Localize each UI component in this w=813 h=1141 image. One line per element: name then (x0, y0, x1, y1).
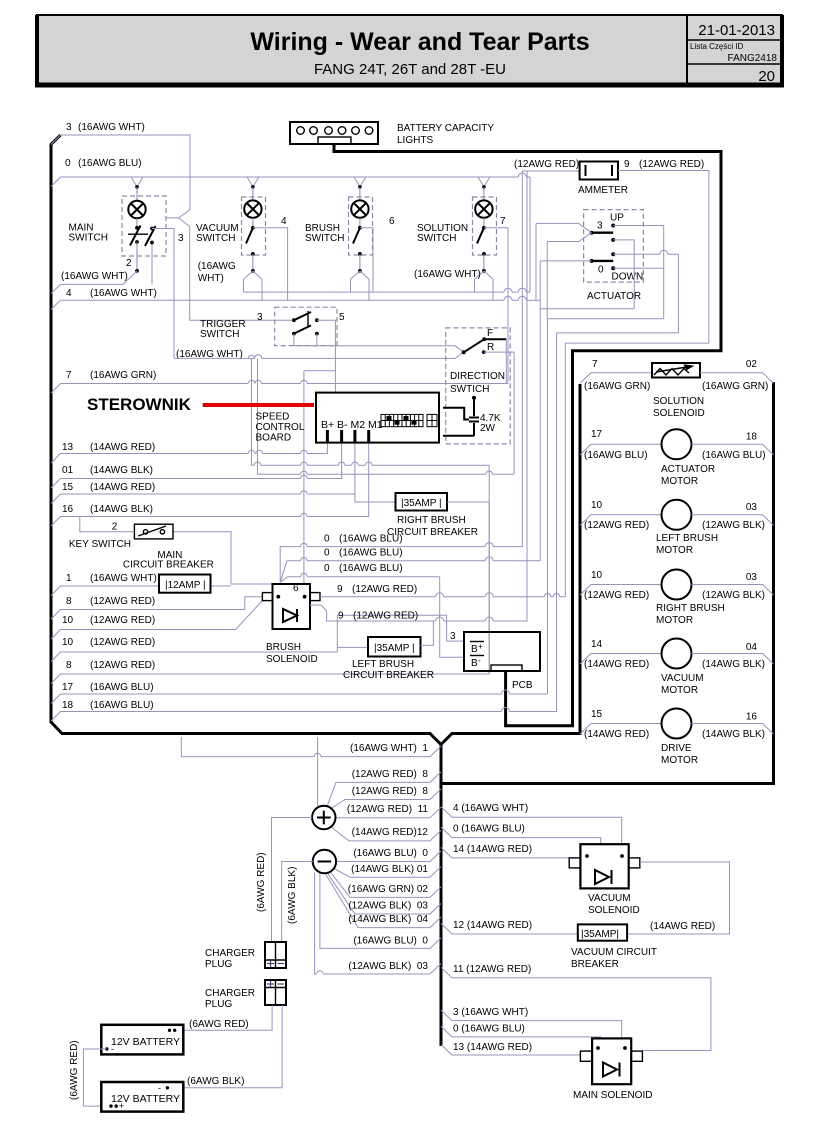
wire (14AWG BLK) 01 (333, 867, 441, 878)
svg-text:(14AWG BLK): (14AWG BLK) (90, 504, 153, 515)
svg-text:(16AWG GRN): (16AWG GRN) (702, 381, 768, 392)
svg-text:SOLUTION: SOLUTION (653, 396, 704, 407)
svg-text:CIRCUIT BREAKER: CIRCUIT BREAKER (343, 670, 434, 681)
actuator right side wires (613, 225, 664, 227)
svg-text:9: 9 (338, 611, 344, 622)
svg-text:16: 16 (746, 712, 758, 723)
actuator (530, 177, 678, 561)
svg-text:RIGHT BRUSH: RIGHT BRUSH (397, 515, 466, 526)
svg-text:PCB: PCB (512, 680, 533, 691)
wire 0 (16AWG BLU) (441, 827, 601, 844)
svg-text:01: 01 (62, 465, 74, 476)
svg-text:MOTOR: MOTOR (661, 476, 698, 487)
svg-text:VACUUM: VACUUM (661, 673, 704, 684)
right section: solution solenoid (580, 359, 774, 419)
svg-text:1: 1 (66, 573, 72, 584)
wire 8b row (51, 502, 489, 684)
wire 8 row (51, 597, 262, 619)
svg-text:9: 9 (624, 159, 630, 170)
svg-text:3 (16AWG WHT): 3 (16AWG WHT) (453, 1007, 528, 1018)
svg-text:Wiring - Wear and Tear Parts: Wiring - Wear and Tear Parts (250, 28, 589, 56)
svg-text:|35AMP |: |35AMP | (401, 498, 442, 509)
wire 4 (16AWG WHT) (441, 807, 622, 845)
wire feed A (548, 318, 664, 320)
svg-text:8: 8 (66, 660, 72, 671)
svg-text:(12AWG RED): (12AWG RED) (353, 611, 418, 622)
wire 3 row (51, 135, 294, 320)
svg-text:(14AWG RED): (14AWG RED) (90, 482, 155, 493)
wire battery2 minus to plug2 (172, 1005, 282, 1088)
svg-text:BATTERY CAPACITY: BATTERY CAPACITY (397, 123, 494, 134)
svg-text:(12AWG RED): (12AWG RED) (352, 584, 417, 595)
svg-text:B: B (471, 658, 478, 669)
wire battery1 plus to plug2 (174, 1005, 272, 1030)
trigger switch (174, 307, 514, 584)
drive motor (580, 709, 774, 767)
svg-text:MAIN SOLENOID: MAIN SOLENOID (573, 1090, 652, 1101)
svg-text:(16AWG BLU): (16AWG BLU) (78, 158, 142, 169)
svg-text:UP: UP (610, 213, 624, 224)
battery series loop (83, 1049, 111, 1106)
solution switch (414, 177, 508, 384)
wire 1 row with 12AMP breaker (51, 586, 159, 596)
svg-text:(12AWG BLK): (12AWG BLK) (702, 590, 765, 601)
svg-text:SWITCH: SWITCH (69, 233, 108, 244)
svg-text:10: 10 (591, 570, 603, 581)
battery plus node (272, 737, 336, 942)
svg-text:0: 0 (598, 265, 604, 276)
ammeter (514, 159, 709, 343)
svg-text:Lista Części ID: Lista Części ID (690, 42, 744, 51)
vacuum solenoid (569, 844, 729, 934)
left brush motor (580, 500, 774, 556)
svg-text:9: 9 (337, 584, 343, 595)
wire 13 row (51, 454, 248, 464)
svg-text:VACUUM: VACUUM (588, 893, 631, 904)
long horizontal wire y465 (252, 462, 490, 674)
svg-text:MOTOR: MOTOR (661, 755, 698, 766)
svg-text:(16AWG BLU): (16AWG BLU) (90, 682, 154, 693)
wire 10 row (51, 601, 262, 639)
svg-text:BRUSH: BRUSH (266, 642, 301, 653)
svg-text:MOTOR: MOTOR (656, 545, 693, 556)
wire 0 row (51, 177, 518, 187)
svg-text:PLUG: PLUG (205, 959, 232, 970)
svg-text:DOWN: DOWN (612, 272, 644, 283)
svg-text:(14AWG RED): (14AWG RED) (584, 729, 649, 740)
svg-text:0: 0 (324, 534, 330, 545)
svg-text:7: 7 (500, 216, 506, 227)
bottom-right thick branch (441, 382, 774, 784)
distribution wire y292 (244, 288, 531, 292)
left bus stub rows (51, 122, 557, 721)
svg-text:(6AWG RED): (6AWG RED) (256, 852, 267, 912)
svg-text:3: 3 (66, 122, 72, 133)
svg-text:(14AWG BLK) 04: (14AWG BLK) 04 (348, 914, 428, 925)
svg-text:10: 10 (62, 615, 74, 626)
vacuum motor (580, 639, 774, 697)
svg-text:(12AWG RED) 8: (12AWG RED) 8 (352, 769, 429, 780)
svg-text:13 (14AWG RED): 13 (14AWG RED) (453, 1042, 532, 1053)
12V battery 2 (101, 1082, 183, 1112)
wire (16AWG GRN) 02 (330, 872, 441, 898)
svg-text:CIRCUIT BREAKER: CIRCUIT BREAKER (123, 560, 214, 571)
svg-text:(14AWG RED): (14AWG RED) (584, 659, 649, 670)
svg-text:(12AWG RED): (12AWG RED) (639, 159, 704, 170)
svg-text:(14AWG BLK): (14AWG BLK) (702, 659, 765, 670)
svg-text:(14AWG BLK) 01: (14AWG BLK) 01 (351, 864, 428, 875)
svg-text:3: 3 (257, 312, 263, 323)
svg-text:15: 15 (591, 709, 603, 720)
wire (16AWG BLU) 0 (337, 851, 442, 862)
svg-text:03: 03 (746, 572, 758, 583)
direction switch (446, 328, 514, 474)
left brush circuit breaker 35AMP (337, 621, 434, 681)
header block (35, 15, 784, 86)
svg-text:(16AWG GRN): (16AWG GRN) (584, 381, 650, 392)
svg-text:|12AMP |: |12AMP | (165, 580, 206, 591)
wire 0 (16AWG BLU) (441, 1026, 601, 1038)
main circuit breaker 12AMP (123, 550, 214, 593)
svg-text:8: 8 (66, 596, 72, 607)
bottom-left stub rows into second bus (181, 737, 441, 974)
key switch (69, 517, 173, 551)
wire 13 (14AWG RED) (441, 1045, 580, 1056)
svg-text:2: 2 (126, 258, 132, 269)
svg-text:0: 0 (65, 158, 71, 169)
svg-text:3: 3 (178, 233, 184, 244)
svg-text:+: + (119, 1101, 124, 1111)
svg-text:(16AWG: (16AWG (198, 261, 236, 272)
svg-text:+: + (478, 642, 483, 651)
svg-text:ACTUATOR: ACTUATOR (661, 464, 715, 475)
svg-text:-: - (158, 1083, 161, 1093)
svg-text:0: 0 (324, 548, 330, 559)
svg-text:(16AWG BLU) 0: (16AWG BLU) 0 (353, 848, 428, 859)
svg-text:LEFT BRUSH: LEFT BRUSH (352, 659, 414, 670)
svg-text:12 (14AWG RED): 12 (14AWG RED) (453, 920, 532, 931)
three 0 (16AWG BLU) rows (280, 171, 540, 657)
svg-text:B: B (471, 644, 478, 655)
wire 12 (14AWG RED) (441, 924, 578, 935)
svg-text:(16AWG WHT): (16AWG WHT) (414, 269, 481, 280)
actuator merge chevron wires (536, 223, 592, 232)
svg-text:6: 6 (293, 583, 299, 594)
svg-text:(16AWG WHT): (16AWG WHT) (90, 573, 157, 584)
svg-text:(16AWG BLU): (16AWG BLU) (702, 450, 766, 461)
svg-text:CONTROL: CONTROL (256, 422, 305, 433)
svg-text:SWTICH: SWTICH (450, 384, 489, 395)
svg-text:DIRECTION: DIRECTION (450, 371, 505, 382)
svg-text:(12AWG RED) 11: (12AWG RED) 11 (347, 804, 429, 815)
svg-text:PLUG: PLUG (205, 999, 232, 1010)
svg-text:(16AWG BLU): (16AWG BLU) (90, 700, 154, 711)
svg-text:SWITCH: SWITCH (305, 233, 344, 244)
svg-text:SWITCH: SWITCH (200, 329, 239, 340)
brush switch (305, 177, 395, 300)
svg-text:3: 3 (597, 221, 603, 232)
svg-text:CHARGER: CHARGER (205, 988, 255, 999)
PCB (450, 631, 540, 691)
svg-text:(16AWG BLU): (16AWG BLU) (339, 548, 403, 559)
wire 18 row (51, 712, 502, 722)
svg-text:14: 14 (591, 639, 603, 650)
svg-text:(16AWG BLU) 0: (16AWG BLU) 0 (353, 936, 428, 947)
svg-text:(6AWG BLK): (6AWG BLK) (187, 1076, 244, 1087)
svg-text:(12AWG RED): (12AWG RED) (584, 590, 649, 601)
svg-text:02: 02 (746, 359, 758, 370)
svg-text:11 (12AWG RED): 11 (12AWG RED) (453, 964, 531, 975)
main solenoid (573, 1038, 652, 1101)
svg-text:6: 6 (389, 216, 395, 227)
svg-text:VACUUM CIRCUIT: VACUUM CIRCUIT (571, 947, 657, 958)
svg-text:0 (16AWG BLU): 0 (16AWG BLU) (453, 1024, 525, 1035)
right brush circuit breaker 35AMP (355, 493, 489, 538)
wire 2 row (51, 284, 123, 293)
vacuum switch (196, 177, 288, 300)
svg-text:SOLENOID: SOLENOID (653, 408, 705, 419)
svg-text:WHT): WHT) (198, 273, 224, 284)
svg-text:AMMETER: AMMETER (578, 185, 628, 196)
svg-text:2W: 2W (480, 423, 496, 434)
svg-text:13: 13 (62, 442, 74, 453)
wire 17 row (51, 694, 502, 704)
4.7K 2W resistor (443, 396, 501, 436)
wire (14AWG RED)12 (331, 827, 441, 841)
wire 15 row (51, 494, 301, 504)
svg-text:MOTOR: MOTOR (661, 685, 698, 696)
main switch (69, 177, 185, 358)
wire (12AWG BLK) 03 (327, 873, 441, 915)
battery minus node (282, 850, 336, 942)
svg-text:4: 4 (281, 216, 287, 227)
svg-text:(6AWG RED): (6AWG RED) (69, 1040, 80, 1100)
svg-text:SWITCH: SWITCH (417, 233, 456, 244)
svg-text:14 (14AWG RED): 14 (14AWG RED) (453, 844, 532, 855)
svg-text:18: 18 (62, 700, 74, 711)
svg-text:0: 0 (324, 563, 330, 574)
svg-text:10: 10 (62, 637, 74, 648)
svg-text:KEY SWITCH: KEY SWITCH (69, 539, 131, 550)
svg-text:12V BATTERY: 12V BATTERY (111, 1036, 180, 1048)
svg-text:(16AWG GRN): (16AWG GRN) (90, 370, 156, 381)
svg-text:03: 03 (746, 502, 758, 513)
svg-text:(14AWG BLK): (14AWG BLK) (702, 729, 765, 740)
svg-text:3: 3 (450, 631, 456, 642)
svg-text:(12AWG RED): (12AWG RED) (514, 159, 579, 170)
svg-text:CHARGER: CHARGER (205, 948, 255, 959)
wire (12AWG RED) 8 (327, 772, 441, 807)
svg-text:7: 7 (592, 359, 598, 370)
svg-text:FANG2418: FANG2418 (728, 53, 778, 64)
second bus vertical (440, 745, 443, 1047)
wire 14 (14AWG RED) (441, 847, 569, 858)
mid feed wires to right section (548, 319, 709, 712)
svg-text:SWITCH: SWITCH (196, 233, 235, 244)
svg-text:(12AWG RED): (12AWG RED) (584, 520, 649, 531)
svg-text:21-01-2013: 21-01-2013 (698, 22, 775, 39)
svg-text:(12AWG RED): (12AWG RED) (90, 596, 155, 607)
svg-text:4: 4 (66, 288, 72, 299)
svg-text:MOTOR: MOTOR (656, 615, 693, 626)
svg-text:SOLENOID: SOLENOID (588, 905, 640, 916)
svg-text:7: 7 (66, 370, 72, 381)
svg-text:BOARD: BOARD (256, 433, 292, 444)
svg-text:17: 17 (591, 429, 603, 440)
svg-text:SOLENOID: SOLENOID (266, 654, 318, 665)
svg-text:(12AWG RED) 8: (12AWG RED) 8 (352, 786, 429, 797)
svg-text:(12AWG RED): (12AWG RED) (90, 660, 155, 671)
wire 4 row (51, 300, 504, 309)
svg-text:LIGHTS: LIGHTS (397, 135, 433, 146)
wire (16AWG BLU) 0 second (320, 873, 441, 949)
wire (12AWG RED) 8 second (331, 789, 441, 809)
brush solenoid (262, 171, 565, 665)
svg-text:5: 5 (339, 312, 345, 323)
svg-text:DRIVE: DRIVE (661, 743, 692, 754)
svg-text:16: 16 (62, 504, 74, 515)
wire feed C (ammeter return) (565, 342, 709, 344)
svg-text:-: - (478, 656, 481, 665)
svg-text:(16AWG WHT): (16AWG WHT) (61, 271, 128, 282)
svg-text:(6AWG BLK): (6AWG BLK) (287, 867, 298, 924)
svg-text:(12AWG RED): (12AWG RED) (90, 637, 155, 648)
svg-text:|35AMP|: |35AMP| (581, 929, 619, 940)
svg-text:(12AWG RED): (12AWG RED) (90, 615, 155, 626)
right brush motor (580, 570, 774, 627)
svg-text:(12AWG BLK) 03: (12AWG BLK) 03 (348, 961, 428, 972)
svg-text:(14AWG RED)12: (14AWG RED)12 (352, 827, 429, 838)
svg-text:STEROWNIK: STEROWNIK (87, 395, 192, 414)
svg-text:10: 10 (591, 500, 603, 511)
svg-text:(14AWG BLK): (14AWG BLK) (90, 465, 153, 476)
svg-text:(16AWG BLU): (16AWG BLU) (584, 450, 648, 461)
svg-text:(14AWG RED): (14AWG RED) (90, 442, 155, 453)
svg-text:17: 17 (62, 682, 74, 693)
main thick outline from battery-lights connector to PCB (334, 143, 721, 726)
svg-text:(12AWG BLK): (12AWG BLK) (702, 520, 765, 531)
speed control board (256, 393, 440, 444)
left bus (51, 135, 580, 745)
svg-text:15: 15 (62, 482, 74, 493)
wire 11 (12AWG RED) (441, 967, 711, 1050)
connector grid on board (381, 414, 437, 426)
wire 10b row (51, 615, 337, 661)
svg-text:B+ B- M2 M1: B+ B- M2 M1 (321, 419, 383, 431)
svg-text:|35AMP |: |35AMP | (374, 643, 415, 654)
wire (14AWG BLK) 04 (325, 873, 441, 928)
wire (16AWG WHT) 1 (181, 737, 314, 757)
svg-text:18: 18 (746, 432, 758, 443)
12V battery 1 (101, 1025, 183, 1055)
wire (12AWG RED) 11 (336, 807, 442, 818)
svg-text:(16AWG BLU): (16AWG BLU) (339, 534, 403, 545)
svg-text:BREAKER: BREAKER (571, 959, 619, 970)
svg-text:(16AWG WHT) 1: (16AWG WHT) 1 (350, 743, 428, 754)
wire (12AWG BLK) 03 second (315, 872, 317, 974)
svg-text:R: R (487, 342, 494, 353)
vacuum circuit breaker (571, 924, 657, 970)
svg-text:(16AWG WHT): (16AWG WHT) (90, 288, 157, 299)
svg-text:(16AWG WHT): (16AWG WHT) (78, 122, 145, 133)
wire feed B (557, 332, 679, 334)
svg-text:FANG 24T, 26T and 28T -EU: FANG 24T, 26T and 28T -EU (314, 61, 506, 78)
svg-text:4 (16AWG WHT): 4 (16AWG WHT) (453, 803, 528, 814)
svg-text:(14AWG RED): (14AWG RED) (650, 921, 715, 932)
svg-text:RIGHT BRUSH: RIGHT BRUSH (656, 603, 725, 614)
svg-text:LEFT BRUSH: LEFT BRUSH (656, 533, 718, 544)
STEROWNIK red label (87, 395, 314, 414)
svg-text:(16AWG GRN) 02: (16AWG GRN) 02 (348, 884, 429, 895)
wire 7 row (51, 384, 248, 394)
actuator motor (580, 429, 774, 487)
svg-text:-: - (111, 1044, 114, 1054)
wire 16 row (51, 517, 301, 527)
charger plug 1 (205, 942, 286, 970)
second bus right-side stubs (441, 803, 711, 1055)
svg-text:SPEED: SPEED (256, 412, 290, 423)
svg-text:F: F (487, 328, 493, 339)
svg-text:20: 20 (758, 68, 775, 85)
battery capacity lights connector (290, 122, 494, 146)
svg-text:0 (16AWG BLU): 0 (16AWG BLU) (453, 824, 525, 835)
svg-text:ACTUATOR: ACTUATOR (587, 291, 641, 302)
svg-text:2: 2 (112, 522, 118, 533)
svg-text:(12AWG BLK) 03: (12AWG BLK) 03 (348, 901, 428, 912)
svg-text:04: 04 (746, 642, 758, 653)
svg-text:(16AWG BLU): (16AWG BLU) (339, 563, 403, 574)
wire 3 (16AWG WHT) (441, 1010, 622, 1038)
wire 01 row (51, 479, 301, 489)
charger plug 2 (205, 980, 286, 1010)
svg-text:(6AWG RED): (6AWG RED) (189, 1019, 249, 1030)
